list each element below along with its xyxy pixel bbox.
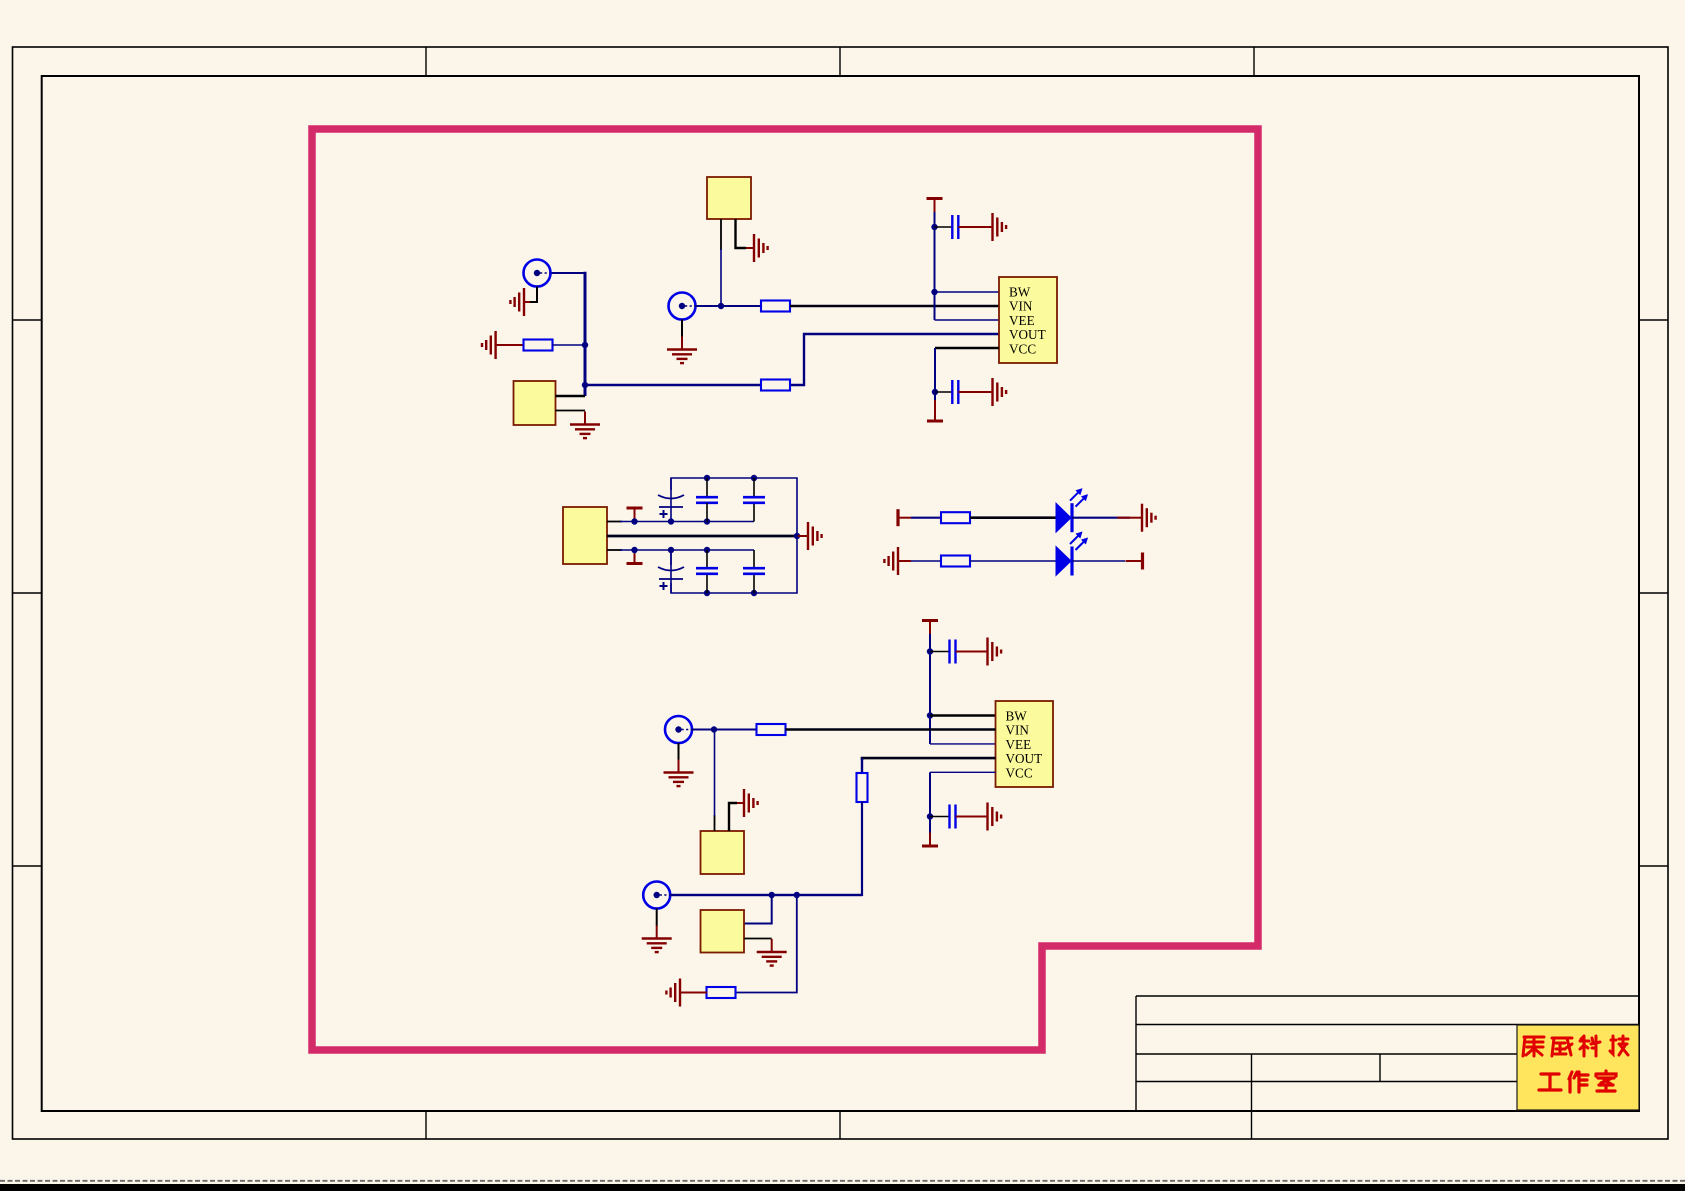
wire: pin3 row — [620, 549, 754, 551]
wire: bar to R4 — [911, 517, 942, 519]
BNC connector J3 — [665, 716, 692, 743]
LED D1 — [1056, 489, 1088, 533]
pin: J1 ground pin — [530, 287, 537, 303]
BNC connector J4 — [643, 882, 670, 909]
lead: C4 top — [706, 478, 708, 497]
junction: bus/R1 — [582, 342, 588, 348]
pin: C10 left lead — [930, 816, 950, 818]
wire: U2 VOUT to R7 — [862, 758, 996, 760]
pin: U2 VEE — [930, 743, 996, 745]
polarized capacitor C6 — [658, 567, 684, 590]
amplifier U1 — [999, 277, 1057, 363]
svg-text:VIN: VIN — [1006, 723, 1030, 738]
pin: U1 VCC — [935, 347, 999, 349]
ground for JP5 — [757, 939, 787, 966]
power port V+ tap — [627, 508, 643, 522]
power port VEE bar top — [927, 199, 943, 213]
pin: C9 left lead — [930, 651, 950, 653]
junction: bottom rail a — [704, 590, 710, 596]
junction: bottom rail b — [751, 590, 757, 596]
wire: VCC stub to bar — [934, 400, 936, 409]
wire: R3 right pin up to VOUT wire — [790, 334, 999, 385]
wire: pin1 row — [620, 521, 754, 523]
wire: C9 to ground — [956, 651, 977, 653]
ground for JP4 — [737, 789, 758, 817]
ground for C1 — [982, 213, 1007, 241]
resistor R8 — [707, 987, 736, 998]
zone tick marks bottom margin — [426, 1111, 840, 1139]
pin: J2 ground pin — [681, 320, 683, 338]
junction: net a — [769, 892, 775, 898]
svg-text:BW: BW — [1006, 709, 1028, 724]
wire: top rail of cap bank — [671, 478, 797, 593]
junction: net b — [794, 892, 800, 898]
wire: VCC stub to bar — [929, 833, 931, 846]
ground for JP2 — [746, 234, 768, 262]
power port bar top (U2) — [922, 621, 938, 635]
svg-text:VCC: VCC — [1009, 341, 1036, 356]
logo text line 2: 工作室 — [1539, 1071, 1616, 1092]
junction: common/ground — [794, 533, 800, 539]
pin: U1 BW — [935, 291, 1000, 293]
lead: C7 leads — [706, 550, 708, 568]
wire: junction to R2 — [721, 305, 761, 307]
wire: JP2 pin1 down to J2 wire — [720, 249, 722, 306]
wire: R8 to ground — [691, 992, 707, 994]
resistor R5 — [941, 556, 970, 567]
ground for R1 — [482, 331, 524, 359]
wire: J2 to junction — [696, 305, 722, 307]
pin: JP5 pin2 — [744, 938, 772, 940]
wire: net b down to R8 — [735, 895, 797, 993]
ground for D2 — [884, 547, 911, 575]
junction: C1 tap — [931, 224, 937, 230]
wire: VCC down to C2 — [934, 348, 936, 402]
svg-text:VCC: VCC — [1006, 765, 1033, 780]
wire: R4 to D1 — [970, 516, 1056, 519]
svg-text:VEE: VEE — [1006, 737, 1032, 752]
ground for C2 — [982, 378, 1007, 406]
zone tick marks top margin — [426, 47, 1254, 76]
resistor R1 — [524, 340, 553, 351]
ground for J3 — [664, 760, 694, 787]
capacitor C2 — [952, 380, 958, 404]
junction: C2 tap — [932, 389, 938, 395]
wire: JP4 pin1 to junction — [714, 730, 716, 817]
power port VCC bar bottom — [927, 408, 943, 422]
lead: C5 leads — [753, 478, 755, 497]
pin: C2 left lead — [935, 391, 952, 393]
wire: R6 to U2 VIN — [786, 728, 996, 731]
zone tick marks left margin — [13, 320, 42, 866]
ground for C9 — [977, 638, 1002, 666]
ground middle common — [797, 522, 822, 550]
wire: J3 to junction — [692, 729, 714, 731]
wire: R7 down to output net — [671, 802, 863, 895]
pin: J3 ground pin — [678, 743, 680, 760]
junction: row2 a — [631, 547, 637, 553]
junction: top rail b — [751, 475, 757, 481]
power port bar for D2 — [1126, 553, 1143, 570]
connector JP5 — [701, 910, 745, 953]
resistor R7 — [857, 773, 868, 802]
pin: C1 left lead — [935, 226, 953, 228]
junction: C9 tap — [927, 648, 933, 654]
wire: R5 to D2 — [970, 560, 1056, 562]
wire: C1 to ground — [959, 226, 982, 228]
lead: C3 top — [670, 478, 672, 490]
title block table lines — [1136, 996, 1639, 1139]
junction: row1 c — [704, 518, 710, 524]
ground for J4 — [642, 926, 672, 953]
junction: J2/JP2 — [718, 303, 724, 309]
wire: ground to R5 — [911, 560, 942, 562]
svg-text:VIN: VIN — [1009, 299, 1033, 314]
wire: VEE bus vertical — [934, 212, 936, 320]
power port bar for D1 — [898, 509, 911, 526]
LED D2 — [1056, 532, 1088, 576]
pin: JP3 pin3 — [607, 549, 622, 551]
junction: C10 tap — [927, 813, 933, 819]
pin: JP1 pin 1 to bus — [556, 395, 586, 398]
capacitor C4 — [696, 497, 718, 503]
wire: net to JP5 pin1 — [744, 895, 772, 924]
wire: C10 to ground — [956, 816, 977, 818]
capacitor C1 — [952, 215, 958, 239]
svg-text:BW: BW — [1009, 285, 1031, 300]
capacitor C5 — [743, 497, 765, 503]
lead: C6 top — [670, 550, 672, 565]
pin: JP1 pin 2 — [556, 410, 586, 412]
polarized capacitor C3 — [658, 495, 684, 518]
connector JP4 — [701, 831, 745, 874]
wire: vertical bus top section — [584, 272, 587, 396]
junction: row1 b — [668, 518, 674, 524]
svg-text:VOUT: VOUT — [1006, 751, 1043, 766]
pin: JP2 pin 2 — [736, 219, 747, 248]
wire: BNC J1 to vertical bus — [551, 272, 585, 274]
wire: VCC down to C10 — [929, 772, 931, 833]
bottom black strip — [0, 1184, 1685, 1191]
capacitor C8 — [743, 568, 765, 574]
capacitor C9 — [950, 640, 956, 664]
pin: JP2 pin 1 (to BNC J2 net) — [720, 219, 722, 250]
logo text line 1: 康威科技 — [1523, 1036, 1628, 1056]
junction: J3 net — [711, 726, 717, 732]
title block logo box — [1517, 1025, 1639, 1110]
resistor R4 — [941, 512, 970, 523]
power port V- tap — [627, 550, 643, 564]
junction: bus/long wire — [582, 382, 588, 388]
svg-text:VOUT: VOUT — [1009, 327, 1046, 342]
ground for JP1 — [570, 412, 600, 439]
amplifier U2 — [996, 701, 1054, 787]
wire: D1 to ground — [1072, 517, 1130, 519]
wire: J4 output net — [670, 894, 862, 896]
zone tick marks right margin — [1639, 320, 1668, 866]
lead: C8 leads — [753, 550, 755, 568]
junction: U2 BW tap — [927, 712, 933, 718]
pin: U2 BW — [930, 714, 996, 716]
BNC connector J2 — [669, 293, 696, 320]
capacitor C10 — [950, 805, 956, 829]
wire: U2 upper bus vertical — [929, 634, 931, 744]
junction: BW tap — [931, 289, 937, 295]
wire: R2 to U1 VIN — [790, 305, 999, 308]
lead: C4 bottom — [706, 503, 708, 522]
magenta highlight border polyline — [312, 129, 1258, 1050]
resistor R2 — [761, 301, 790, 312]
junction: row1 a — [631, 518, 637, 524]
pin: U1 VEE — [935, 319, 1000, 321]
ground for J1 — [510, 288, 530, 316]
wire: R1 to bus — [553, 344, 586, 346]
junction: row2 c — [704, 547, 710, 553]
ground for D1 — [1131, 504, 1156, 532]
resistor R3 — [761, 380, 790, 391]
wire: D2 to power bar — [1072, 560, 1125, 562]
resistor R6 — [757, 724, 786, 735]
wire: bus to R3 (long horizontal) — [585, 384, 761, 387]
pin: U2 VCC — [930, 771, 996, 773]
lead: C6 bottom — [670, 583, 672, 593]
svg-text:VEE: VEE — [1009, 313, 1035, 328]
wire: C2 to ground — [959, 391, 982, 393]
ground for C10 — [977, 803, 1002, 831]
capacitor C7 — [696, 568, 718, 574]
ground for J2 — [667, 337, 697, 364]
pin: J4 ground pin — [656, 909, 658, 927]
BNC connector J1 — [524, 260, 551, 287]
connector JP2 — [707, 177, 751, 219]
ground for R8 — [666, 979, 691, 1007]
pin: JP4 pin2 — [729, 803, 737, 831]
pin: JP4 pin1 up to J4 net — [714, 815, 716, 831]
connector JP1 — [514, 381, 556, 425]
junction: top rail a — [704, 475, 710, 481]
junction: row2 b — [668, 547, 674, 553]
pin: JP3 pin1 — [607, 521, 622, 523]
power port bar bottom (U2) — [922, 833, 938, 847]
power connector JP3 — [563, 507, 607, 564]
pin: JP3 pin2 (common) — [607, 535, 797, 538]
wire: junction to R6 — [714, 729, 757, 731]
